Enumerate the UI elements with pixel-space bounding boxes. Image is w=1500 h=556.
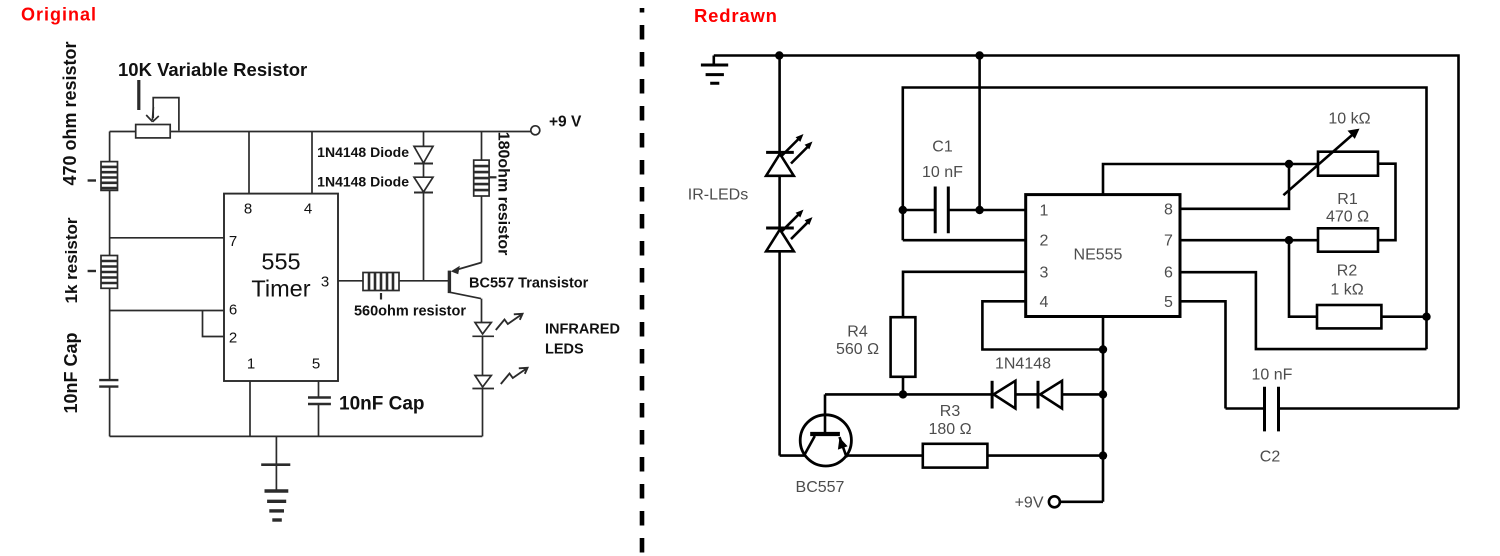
svg-text:Timer: Timer (251, 276, 310, 302)
wire pin 2 (903, 239, 1026, 242)
svg-text:2: 2 (229, 330, 237, 347)
tick 180 label (490, 176, 497, 178)
svg-text:1N4148: 1N4148 (995, 356, 1051, 373)
svg-text:10nF Cap: 10nF Cap (339, 394, 425, 415)
transistor emitter wire with arrow (454, 263, 482, 271)
resistor R1 body (1318, 228, 1378, 251)
capacitor 10nF left plates (99, 380, 118, 387)
wire R4 bottom (902, 377, 905, 395)
LED D1 light arrows (781, 139, 810, 164)
svg-text:BC557 Transistor: BC557 Transistor (469, 276, 589, 292)
base bar (810, 432, 840, 436)
wire left column bottom (109, 387, 111, 437)
resistor 180ohm body (474, 160, 489, 196)
node dot C1 left (899, 206, 907, 214)
svg-text:R2: R2 (1337, 263, 1358, 280)
wire pin2 net vertical and top horizontal (903, 88, 1427, 350)
wire pin 4 route (982, 301, 1103, 349)
svg-text:1N4148 Diode: 1N4148 Diode (317, 144, 409, 160)
svg-text:C2: C2 (1260, 449, 1281, 466)
wire left column mid1 (109, 190, 111, 255)
wire top rail left segment (110, 131, 136, 133)
tick 470 label (88, 179, 96, 181)
LED D2 IR (766, 227, 794, 230)
wire R2 right (1381, 315, 1426, 318)
emitter line with arrow (840, 437, 847, 458)
svg-text:6: 6 (229, 302, 237, 319)
wire pin 3 (338, 280, 363, 282)
svg-text:C1: C1 (932, 139, 953, 156)
LED D3 light arrows (496, 314, 523, 330)
node junction dot C1 branch (975, 51, 983, 59)
svg-text:3: 3 (321, 274, 329, 291)
node dot pin7 (1285, 236, 1293, 244)
svg-text:8: 8 (244, 201, 252, 218)
wire left column mid2 (109, 288, 111, 380)
wire pin 6 route (1180, 272, 1427, 349)
tick 1k label (88, 270, 96, 272)
capacitor C2 (1226, 407, 1459, 410)
capacitor 10nF at pin 5 plates (308, 398, 331, 405)
wire pin7 node down to R2 left (1289, 240, 1317, 317)
IC NE555 box (1026, 195, 1180, 317)
wire between diodes (1015, 393, 1038, 396)
wire pin 7 to R1 (1180, 239, 1318, 242)
terminal +9V (1049, 496, 1060, 507)
svg-text:10K Variable Resistor: 10K Variable Resistor (118, 59, 307, 80)
svg-text:10 nF: 10 nF (922, 164, 963, 181)
wire emitter to R3 (846, 454, 922, 457)
svg-text:LEDS: LEDS (545, 342, 584, 358)
svg-text:560ohm resistor: 560ohm resistor (354, 304, 466, 320)
wire 180ohm column top (481, 132, 483, 161)
wire C1 ground drop (978, 56, 981, 211)
node dot R3 row (1099, 451, 1107, 459)
svg-text:1 kΩ: 1 kΩ (1330, 282, 1363, 299)
wire top ground rail (714, 56, 1459, 409)
transistor Q1 BC557 (800, 415, 851, 466)
wire between diodes (423, 164, 425, 178)
ground symbol (712, 56, 715, 66)
divider dashed line (640, 8, 645, 556)
svg-text:IR-LEDs: IR-LEDs (688, 187, 748, 204)
svg-text:1k resistor: 1k resistor (62, 217, 81, 303)
diode D4 1N4148 (1037, 381, 1040, 409)
diode D1 1N4148 (414, 146, 433, 163)
wire emitter row left (780, 454, 806, 457)
svg-text:180ohm resistor: 180ohm resistor (495, 132, 512, 256)
potentiometer 10K body (136, 125, 171, 138)
resistor R3 body (923, 444, 988, 468)
svg-text:7: 7 (1164, 233, 1173, 250)
wire pin 6 (110, 310, 224, 312)
wire pot right to R1 right (1378, 164, 1396, 241)
wire 560 to transistor base (399, 280, 449, 282)
wire 180ohm to transistor (481, 196, 483, 263)
svg-text:10 nF: 10 nF (1252, 367, 1293, 384)
wire LED chain top (778, 56, 781, 153)
wire base row (825, 393, 992, 396)
node dot pin4/+9V column (1099, 345, 1107, 353)
LED D4 light arrows (501, 368, 528, 384)
diode D3 1N4148 (991, 381, 994, 409)
wire LED column bottom (481, 389, 483, 437)
transistor collector wire (449, 292, 481, 322)
svg-text:180 Ω: 180 Ω (928, 421, 971, 438)
wire pin 5 drop (318, 381, 320, 398)
wire pin 3 to R4 (903, 272, 1026, 317)
svg-text:R4: R4 (847, 324, 868, 341)
collector line (804, 436, 815, 456)
resistor 470 ohm body (101, 162, 118, 191)
capacitor C1 (903, 209, 1026, 212)
wire box top stub to VCC rail (1103, 164, 1318, 195)
svg-text:7: 7 (229, 233, 237, 250)
node dot diode row (1099, 390, 1107, 398)
wire pin 7 (110, 237, 224, 239)
resistor R2 body (1317, 305, 1381, 328)
LED D2 light arrows (781, 214, 810, 239)
svg-text:5: 5 (312, 356, 320, 373)
svg-text:6: 6 (1164, 265, 1173, 282)
svg-text:Redrawn: Redrawn (694, 5, 778, 26)
IC 555 timer box (224, 194, 338, 381)
wire top rail right segment to +9V (170, 131, 531, 133)
label pointer line (137, 80, 140, 110)
svg-text:10nF Cap: 10nF Cap (61, 332, 81, 413)
potentiometer arrow (1283, 133, 1355, 196)
svg-text:1: 1 (247, 356, 255, 373)
wire bottom rail (110, 435, 483, 437)
base wire vertical (824, 394, 827, 433)
svg-text:5: 5 (1164, 294, 1173, 311)
svg-text:BC557: BC557 (796, 479, 845, 496)
wire pin 4 drop (311, 132, 313, 194)
svg-text:8: 8 (1164, 201, 1173, 218)
LED D1 IR (766, 151, 794, 154)
svg-text:4: 4 (1040, 294, 1049, 311)
potentiometer R 10k body (1318, 152, 1378, 176)
svg-text:R1: R1 (1337, 191, 1358, 208)
LED D3 infrared (472, 323, 494, 337)
wire +9V column (1102, 317, 1105, 502)
svg-text:1: 1 (1040, 203, 1049, 220)
terminal +9V (531, 126, 540, 135)
wire between LEDs (482, 336, 484, 375)
wire pin 1 drop (249, 381, 251, 436)
transistor Q1 BC557 base bar (448, 271, 451, 294)
resistor R4 body (891, 317, 916, 377)
potentiometer wiper arrow (146, 107, 159, 122)
svg-text:560 Ω: 560 Ω (836, 341, 879, 358)
svg-text:1N4148 Diode: 1N4148 Diode (317, 174, 409, 190)
svg-text:2: 2 (1040, 233, 1049, 250)
wire R3 right (987, 454, 1103, 457)
wire +9V to column (1060, 500, 1103, 503)
wire diode column bottom (423, 193, 425, 281)
svg-text:555: 555 (261, 249, 300, 275)
wire left column top (109, 132, 111, 162)
diode D2 1N4148 (414, 177, 433, 192)
svg-text:NE555: NE555 (1074, 247, 1123, 264)
svg-text:3: 3 (1040, 264, 1049, 281)
svg-text:Original: Original (21, 5, 97, 25)
svg-text:4: 4 (304, 201, 312, 218)
node junction dot LED branch (775, 51, 783, 59)
resistor 560ohm body (363, 273, 399, 291)
wire pin 5 route (1180, 301, 1226, 408)
wire pin 8 (1180, 164, 1289, 209)
resistor 1k body (101, 256, 118, 289)
potentiometer wiper loop wire (153, 98, 179, 131)
wire diode column top (423, 132, 425, 147)
wire pin 2 stub (203, 311, 225, 337)
svg-text:470 ohm resistor: 470 ohm resistor (60, 41, 80, 185)
node dot VCC/pin8 (1285, 160, 1293, 168)
node dot C1 right / pin1 (975, 206, 983, 214)
ground left (275, 436, 277, 491)
svg-text:INFRARED: INFRARED (545, 322, 620, 338)
wire pin 8 drop (248, 132, 250, 194)
svg-text:R3: R3 (940, 403, 961, 420)
wire between LEDs (778, 176, 781, 228)
wire LED chain bottom (778, 251, 781, 455)
tick 560 label (380, 293, 382, 300)
wire diode to +9V column (1062, 393, 1103, 396)
svg-text:+9V: +9V (1015, 494, 1044, 511)
svg-text:470 Ω: 470 Ω (1326, 209, 1369, 226)
svg-text:10 kΩ: 10 kΩ (1328, 111, 1370, 128)
node dot R2 right (1422, 313, 1430, 321)
node dot R4/base (899, 390, 907, 398)
svg-text:+9 V: +9 V (549, 114, 582, 131)
LED D4 infrared (472, 376, 494, 389)
